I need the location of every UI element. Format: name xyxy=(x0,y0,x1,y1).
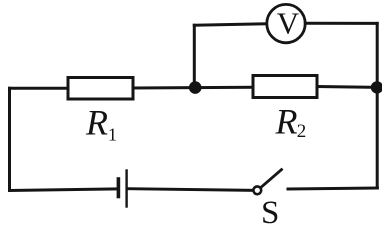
svg-text:S: S xyxy=(261,195,279,224)
svg-text:R: R xyxy=(85,103,108,143)
svg-text:R: R xyxy=(275,101,298,141)
svg-text:V: V xyxy=(277,5,300,40)
svg-text:2: 2 xyxy=(297,121,307,142)
svg-text:1: 1 xyxy=(108,124,117,144)
